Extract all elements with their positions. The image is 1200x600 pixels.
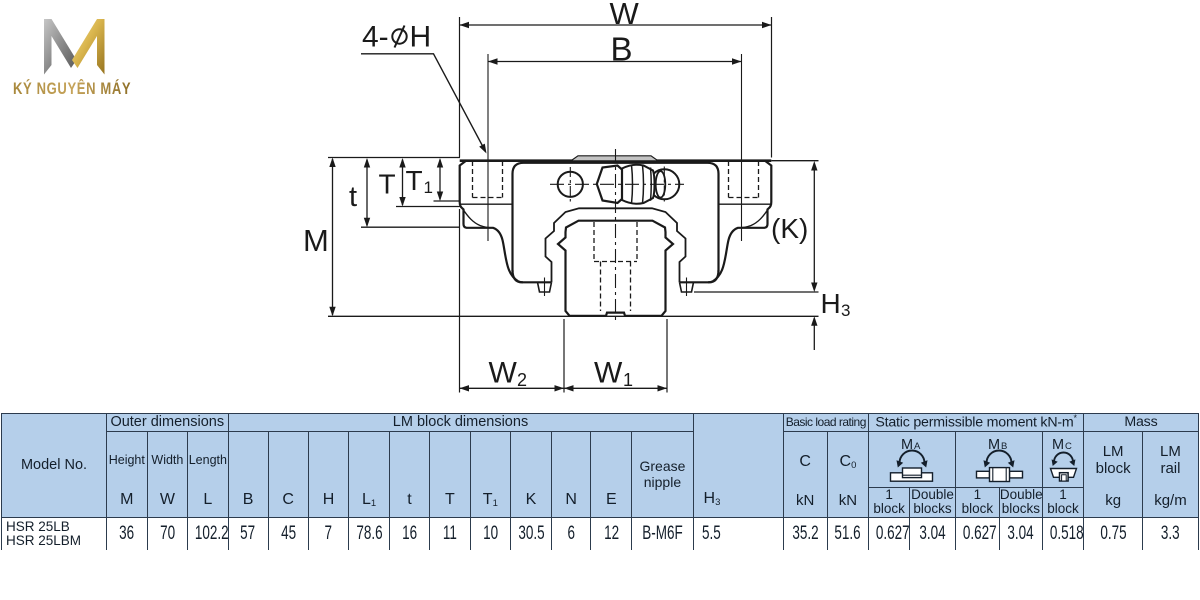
svg-text:(K): (K): [771, 213, 808, 244]
svg-text:3: 3: [841, 301, 850, 320]
nipple tip center line: [663, 167, 665, 203]
rail bolt hole dashed: [601, 262, 631, 312]
arrowhead W2 right: [555, 385, 565, 391]
svg-text:M: M: [1052, 437, 1064, 453]
nipple ribbed cone: [622, 165, 655, 204]
arrowhead W2 left: [460, 385, 470, 391]
dimension B line: [488, 61, 742, 63]
arrowhead B left: [488, 58, 498, 64]
moment MA rail: [891, 473, 933, 481]
M top datum line: [328, 157, 460, 159]
4-phi-H underline and leader: [361, 54, 486, 152]
bolt center line right / B extension: [741, 54, 743, 241]
arrowhead M up: [329, 158, 335, 168]
moment MB shaft left: [976, 471, 989, 478]
moment MC arc: [1054, 453, 1073, 463]
arrowhead B right: [732, 58, 742, 64]
bolt hole dashed right: [729, 161, 759, 198]
H3 lower arrow line: [813, 318, 815, 350]
skirt inner curve right: [738, 209, 769, 228]
moment MA block: [903, 468, 922, 478]
arrowhead H3 up: [811, 316, 817, 326]
logo M left silver stroke: [44, 19, 77, 75]
flange top surface line: [460, 159, 772, 162]
svg-text:W: W: [489, 357, 518, 390]
moment MB shaft right: [1009, 471, 1022, 478]
horizontal center line: [550, 183, 684, 185]
moment MB hub: [989, 468, 1009, 482]
svg-text:W: W: [610, 0, 640, 31]
arrowhead t down: [364, 218, 370, 228]
rail cross-section: [558, 221, 673, 316]
arrowhead W1 left: [564, 385, 574, 391]
bolt center line left / B extension: [487, 54, 489, 241]
rail counterbore dashed: [594, 222, 637, 262]
t level line: [361, 226, 460, 228]
H3 top level line: [694, 291, 819, 293]
arrowhead T1 down: [437, 192, 443, 202]
logo M right gold stroke: [72, 19, 105, 75]
W1 extension middle: [563, 319, 565, 393]
T dimension line: [402, 160, 404, 206]
arrowhead T up: [399, 158, 405, 168]
grease nipple tip sphere: [649, 169, 679, 199]
arrowhead T down: [399, 197, 405, 207]
body bottom lip right: [680, 270, 719, 282]
arrowhead W right: [762, 22, 772, 28]
nipple rib lines: [632, 165, 652, 204]
arrowhead K down: [811, 283, 817, 293]
arrowhead M down: [329, 307, 335, 317]
W extension left: [459, 17, 461, 158]
svg-text:B: B: [611, 31, 633, 68]
dimension table: [1, 413, 1199, 550]
LM block body top and sides: [513, 163, 719, 272]
svg-text:W: W: [594, 357, 623, 390]
M dimension line: [332, 159, 334, 315]
vertical center line: [615, 149, 617, 324]
nipple hexagon: [597, 166, 622, 204]
flange seat line left: [460, 203, 513, 205]
svg-text:4-: 4-: [362, 21, 389, 54]
inner cavity outline: [546, 208, 686, 282]
svg-text:H: H: [821, 288, 841, 319]
arrowhead W left: [460, 22, 470, 28]
T1 dimension line: [439, 160, 441, 200]
body bottom lip left: [513, 270, 552, 282]
side hole circle: [558, 172, 583, 197]
logo KY NGUYEN MAY: [10, 14, 150, 107]
bottom datum line: [328, 315, 819, 317]
tab tick right: [686, 278, 688, 297]
svg-text:C: C: [1065, 441, 1072, 452]
svg-text:H: H: [410, 21, 432, 54]
dimension W line: [460, 24, 772, 26]
bottom seal tab left: [538, 282, 552, 292]
arrowhead W1 right: [658, 385, 668, 391]
svg-text:T: T: [406, 165, 423, 196]
W2 W1 dimension line: [460, 387, 668, 389]
skirt inner curve left: [463, 209, 494, 228]
flange seat line right: [719, 203, 772, 205]
arrowhead K up: [811, 161, 817, 171]
K top reference line: [771, 160, 818, 162]
raised top mounting strip: [571, 156, 658, 161]
W1 extension right: [666, 319, 668, 393]
svg-text:T: T: [379, 169, 396, 200]
side hole center line: [569, 167, 571, 202]
arrowhead t up: [364, 158, 370, 168]
tab tick left: [544, 278, 546, 297]
bottom seal tab right: [680, 282, 694, 292]
moment MC block end view: [1050, 469, 1076, 478]
block outer profile right: [708, 161, 771, 283]
moment MC rail head: [1059, 473, 1068, 481]
t dimension line: [366, 160, 368, 226]
svg-text:t: t: [349, 181, 357, 213]
K dimension line: [813, 163, 815, 290]
moment MA arc: [900, 451, 925, 464]
moment MB arc: [986, 451, 1011, 464]
T1 level line: [434, 200, 460, 202]
svg-text:2: 2: [517, 370, 527, 390]
arrowhead leader: [479, 144, 486, 154]
phi symbol: [392, 26, 406, 48]
svg-text:1: 1: [623, 370, 633, 390]
bolt hole dashed left: [473, 161, 503, 198]
svg-text:M: M: [303, 223, 329, 258]
W extension right: [771, 17, 773, 158]
nipple tip ellipse: [656, 171, 666, 197]
svg-text:1: 1: [424, 178, 433, 197]
T level line: [396, 206, 460, 208]
block outer profile left: [460, 161, 523, 283]
arrowhead T1 up: [437, 158, 443, 168]
W2 extension left: [459, 209, 461, 393]
